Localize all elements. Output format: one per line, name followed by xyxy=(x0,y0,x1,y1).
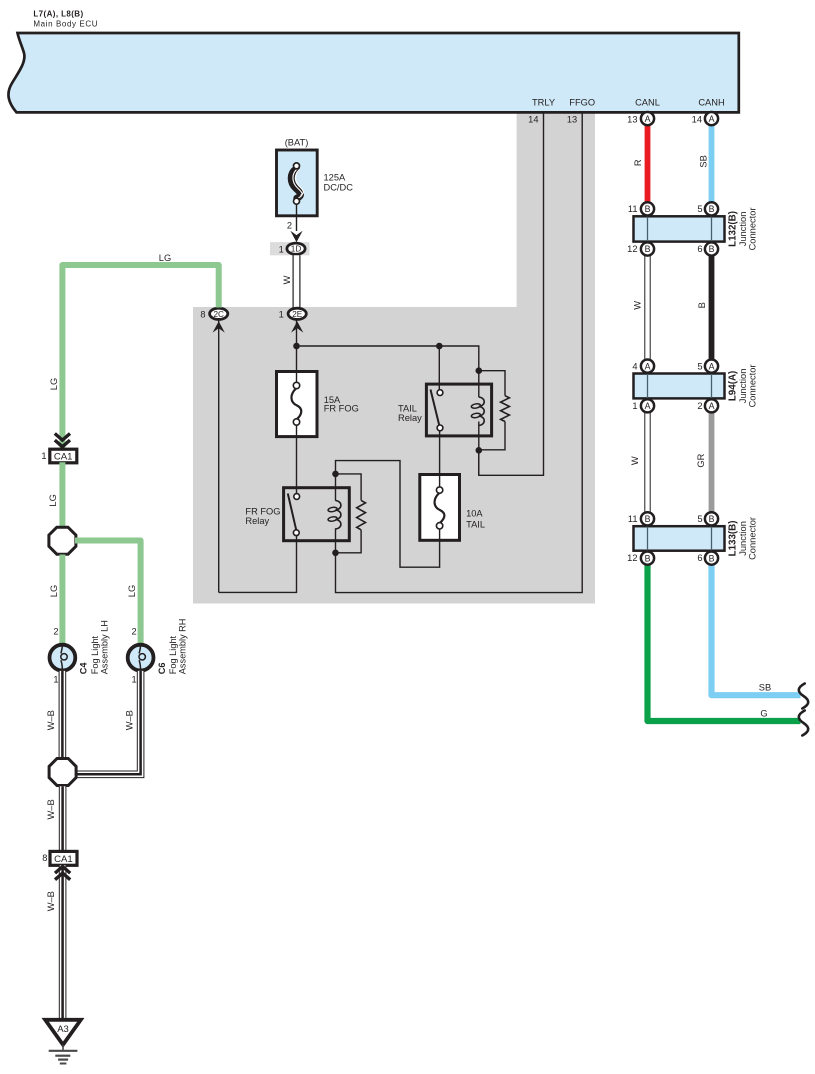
svg-text:Connector: Connector xyxy=(748,364,758,407)
svg-text:2C: 2C xyxy=(213,310,224,319)
svg-text:8: 8 xyxy=(42,853,47,863)
svg-text:4: 4 xyxy=(632,361,637,371)
svg-text:C6: C6 xyxy=(157,662,167,674)
svg-text:SB: SB xyxy=(759,682,771,692)
svg-text:B: B xyxy=(709,204,715,214)
svg-text:5: 5 xyxy=(697,204,702,214)
svg-text:L7(A), L8(B): L7(A), L8(B) xyxy=(33,9,83,18)
svg-text:DC/DC: DC/DC xyxy=(324,182,354,192)
svg-text:1: 1 xyxy=(41,451,46,461)
svg-text:14: 14 xyxy=(528,115,538,125)
svg-text:12: 12 xyxy=(627,553,637,563)
svg-text:2: 2 xyxy=(53,626,58,636)
svg-text:2: 2 xyxy=(132,626,137,636)
svg-text:LG: LG xyxy=(48,494,58,506)
svg-text:1D: 1D xyxy=(291,245,302,254)
svg-text:Junction: Junction xyxy=(738,369,748,404)
svg-text:B: B xyxy=(709,553,715,563)
svg-text:Junction: Junction xyxy=(738,521,748,556)
svg-text:CANH: CANH xyxy=(698,98,724,108)
svg-text:LG: LG xyxy=(49,585,59,597)
svg-text:Assembly LH: Assembly LH xyxy=(99,620,109,674)
svg-text:125A: 125A xyxy=(324,173,347,183)
svg-text:A: A xyxy=(709,401,715,411)
svg-text:B: B xyxy=(645,204,651,214)
svg-text:A: A xyxy=(709,361,715,371)
svg-text:CANL: CANL xyxy=(635,98,660,108)
svg-text:A: A xyxy=(645,401,651,411)
svg-text:TAIL: TAIL xyxy=(466,519,485,529)
svg-text:5: 5 xyxy=(697,361,702,371)
svg-text:W–B: W–B xyxy=(46,799,56,819)
svg-text:L94(A): L94(A) xyxy=(728,371,739,401)
svg-text:12: 12 xyxy=(627,244,637,254)
svg-text:Relay: Relay xyxy=(245,516,269,526)
svg-text:2: 2 xyxy=(287,221,292,231)
svg-text:11: 11 xyxy=(628,204,638,214)
svg-text:CA1: CA1 xyxy=(54,854,73,865)
svg-text:SB: SB xyxy=(698,155,708,167)
svg-text:FR FOG: FR FOG xyxy=(245,507,280,517)
svg-text:2E: 2E xyxy=(292,310,303,319)
svg-text:A: A xyxy=(645,114,651,124)
svg-text:B: B xyxy=(709,244,715,254)
svg-text:1: 1 xyxy=(279,244,284,254)
svg-text:FFGO: FFGO xyxy=(569,98,595,108)
svg-text:B: B xyxy=(697,302,707,308)
svg-text:8: 8 xyxy=(200,309,205,319)
svg-text:5: 5 xyxy=(697,514,702,524)
svg-text:B: B xyxy=(645,553,651,563)
svg-text:2: 2 xyxy=(697,401,702,411)
svg-text:10A: 10A xyxy=(466,508,483,518)
svg-text:Connector: Connector xyxy=(748,207,758,250)
svg-text:CA1: CA1 xyxy=(54,452,73,463)
svg-text:C4: C4 xyxy=(79,662,89,675)
svg-text:L132(B): L132(B) xyxy=(728,211,739,247)
svg-text:W: W xyxy=(632,301,642,310)
svg-text:13: 13 xyxy=(627,114,637,124)
svg-text:W: W xyxy=(630,456,640,465)
svg-text:R: R xyxy=(633,159,643,166)
svg-text:B: B xyxy=(645,244,651,254)
svg-text:TAIL: TAIL xyxy=(398,403,417,413)
svg-text:W–B: W–B xyxy=(124,710,134,730)
svg-text:6: 6 xyxy=(697,244,702,254)
svg-text:GR: GR xyxy=(696,453,706,467)
svg-text:FR FOG: FR FOG xyxy=(324,403,359,413)
svg-text:11: 11 xyxy=(628,514,638,524)
svg-text:Fog Light: Fog Light xyxy=(168,635,178,674)
svg-text:Junction: Junction xyxy=(738,212,748,247)
svg-text:L133(B): L133(B) xyxy=(728,520,739,556)
svg-text:14: 14 xyxy=(692,114,702,124)
svg-text:13: 13 xyxy=(567,115,577,125)
svg-text:B: B xyxy=(709,514,715,524)
svg-text:LG: LG xyxy=(49,378,59,390)
svg-text:Connector: Connector xyxy=(748,517,758,560)
svg-text:G: G xyxy=(760,708,767,718)
svg-text:1: 1 xyxy=(132,674,137,684)
svg-text:1: 1 xyxy=(279,309,284,319)
svg-text:Assembly RH: Assembly RH xyxy=(178,619,188,675)
svg-text:B: B xyxy=(645,514,651,524)
svg-text:Fog Light: Fog Light xyxy=(90,635,100,674)
svg-text:W: W xyxy=(282,275,292,284)
svg-text:W–B: W–B xyxy=(46,710,56,730)
svg-text:1: 1 xyxy=(53,674,58,684)
svg-text:TRLY: TRLY xyxy=(532,98,555,108)
svg-text:A: A xyxy=(645,361,651,371)
svg-text:LG: LG xyxy=(127,585,137,597)
svg-text:W–B: W–B xyxy=(46,891,56,911)
svg-text:A3: A3 xyxy=(57,1024,69,1035)
svg-text:6: 6 xyxy=(697,553,702,563)
svg-text:Relay: Relay xyxy=(398,413,422,423)
svg-text:(BAT): (BAT) xyxy=(285,138,309,148)
svg-text:LG: LG xyxy=(159,253,171,263)
svg-text:A: A xyxy=(709,114,715,124)
svg-text:1: 1 xyxy=(632,401,637,411)
svg-text:Main Body ECU: Main Body ECU xyxy=(33,20,98,29)
